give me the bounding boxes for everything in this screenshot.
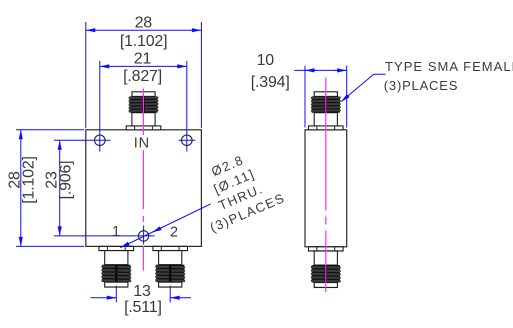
svg-text:[1.102]: [1.102] — [120, 33, 168, 50]
svg-text:2: 2 — [170, 225, 178, 241]
svg-text:IN: IN — [134, 136, 150, 152]
svg-text:[.827]: [.827] — [123, 68, 162, 85]
svg-text:28: 28 — [135, 14, 153, 31]
svg-text:[.394]: [.394] — [251, 74, 290, 91]
svg-text:[.511]: [.511] — [124, 299, 162, 316]
svg-text:[.906]: [.906] — [57, 161, 74, 200]
svg-text:[1.102]: [1.102] — [20, 156, 37, 204]
svg-text:13: 13 — [133, 283, 151, 300]
svg-text:10: 10 — [257, 52, 275, 69]
svg-text:TYPE SMA FEMALE: TYPE SMA FEMALE — [385, 59, 513, 74]
svg-text:1: 1 — [112, 224, 120, 240]
svg-text:(3)PLACES: (3)PLACES — [384, 78, 458, 93]
svg-text:21: 21 — [134, 50, 152, 67]
